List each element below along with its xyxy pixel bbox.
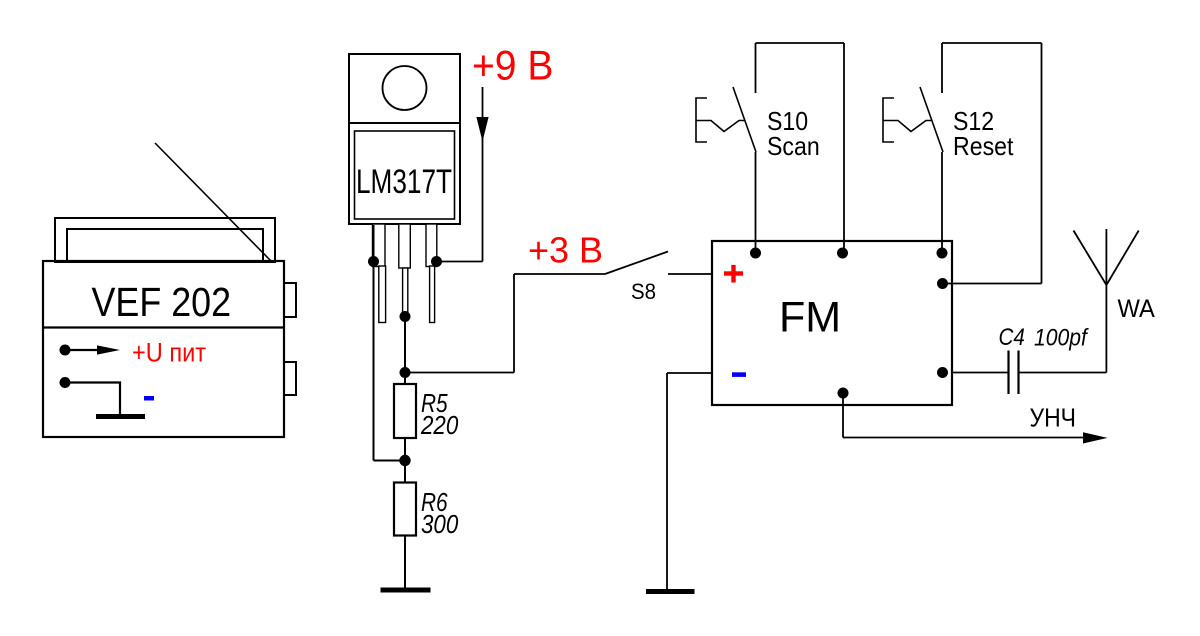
svg-text:Scan: Scan [767,133,820,162]
svg-text:220: 220 [420,411,459,440]
svg-text:300: 300 [421,510,459,539]
svg-text:100pf: 100pf [1034,324,1089,351]
svg-text:Reset: Reset [953,133,1014,162]
svg-text:УНЧ: УНЧ [1030,405,1076,433]
svg-text:LM317T: LM317T [356,164,452,201]
svg-text:S8: S8 [631,279,656,304]
svg-text:+3 В: +3 В [528,230,603,271]
svg-text:VEF 202: VEF 202 [92,280,232,326]
svg-text:C4: C4 [999,324,1025,351]
svg-text:+U пит: +U пит [132,338,207,368]
svg-text:FM: FM [779,293,841,341]
svg-text:WA: WA [1118,295,1156,323]
svg-text:+9 В: +9 В [472,41,553,89]
